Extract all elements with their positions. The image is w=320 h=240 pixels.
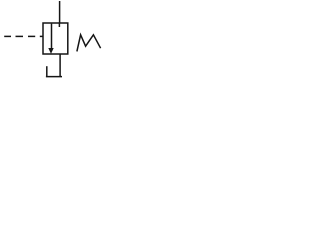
- port stub inside body: [58, 23, 60, 27]
- tank symbol bottom: [46, 76, 62, 78]
- wire: tank lead / tank right wall: [59, 54, 61, 77]
- pilot line dash 4: [40, 35, 44, 37]
- spring: [77, 35, 101, 52]
- pilot-operated pressure relief valve symbol: [0, 0, 105, 83]
- pilot line dash 3: [28, 35, 35, 37]
- wire: top pressure lead: [59, 1, 61, 24]
- flow-path arrowhead: [48, 48, 53, 54]
- tank symbol left wall: [46, 66, 48, 76]
- pilot line (dashed), dash 1: [4, 35, 11, 37]
- pilot line dash 2: [16, 35, 24, 37]
- flow-path arrow shaft: [51, 24, 53, 50]
- valve body (envelope square): [43, 23, 68, 54]
